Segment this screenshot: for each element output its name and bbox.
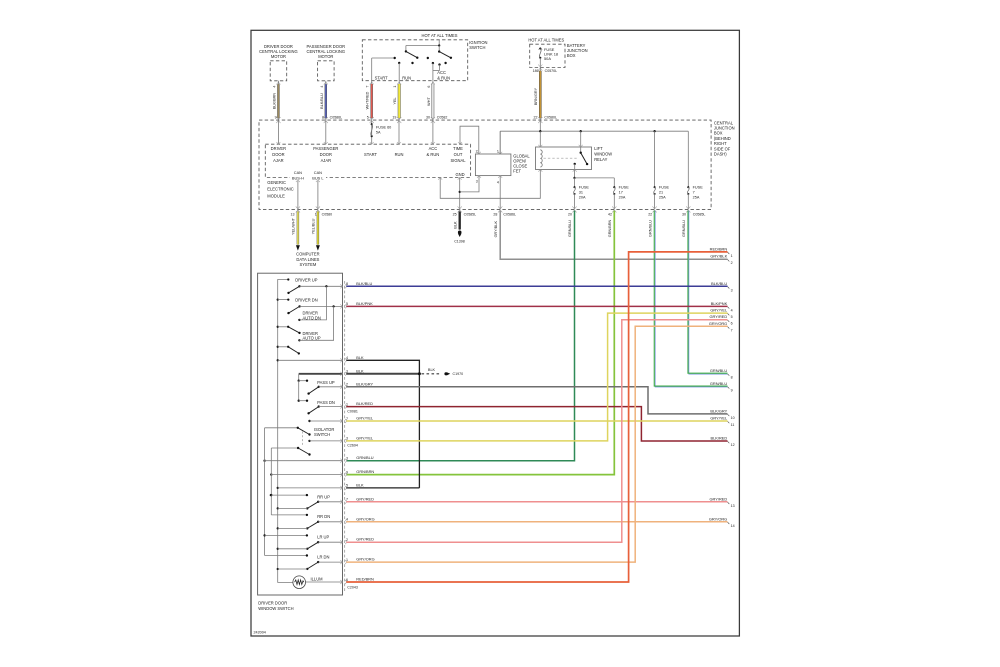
svg-text:PASS UP: PASS UP [317, 380, 335, 385]
svg-text:BOX: BOX [567, 53, 576, 58]
svg-text:4: 4 [346, 518, 348, 522]
fuse 21 25A F21 [654, 131, 656, 187]
GND wire from GEM to FET pin3 and C1398 [458, 178, 462, 180]
svg-text:242004: 242004 [254, 631, 266, 635]
svg-text:MOTOR: MOTOR [271, 54, 286, 59]
svg-text:YEL/BLU: YEL/BLU [312, 218, 316, 234]
svg-text:7: 7 [693, 191, 695, 195]
wire GRN/BLU fuse7 to terminal 8 [689, 211, 728, 374]
svg-text:BLK: BLK [356, 355, 364, 360]
svg-text:GRN/BLU: GRN/BLU [356, 455, 373, 460]
isolator mechanical link [301, 432, 303, 447]
svg-text:3: 3 [731, 288, 733, 292]
svg-text:25A: 25A [659, 196, 666, 200]
svg-text:C2694: C2694 [347, 444, 358, 448]
svg-text:RUN: RUN [402, 75, 411, 80]
wire GRN/BLU fuse21 to terminal 9 [655, 211, 727, 387]
svg-text:LIFT: LIFT [594, 146, 603, 151]
wire GRY/YEL C2694 to terminal 5 [346, 313, 727, 441]
wire TIME OUT SIGNAL to FET pin 2 [460, 126, 479, 154]
svg-text:C0580L: C0580L [544, 115, 557, 119]
svg-text:21: 21 [659, 191, 663, 195]
power bus from BRN/GRY feed [539, 120, 541, 131]
svg-text:MOTOR: MOTOR [318, 54, 333, 59]
ignition RUN contact wire [398, 63, 400, 81]
svg-text:DRIVER: DRIVER [271, 146, 287, 151]
svg-text:MODULE: MODULE [267, 193, 285, 198]
svg-text:GRY/YEL: GRY/YEL [710, 416, 728, 421]
svg-text:PASSENGER: PASSENGER [313, 146, 338, 151]
switch pin 4 BLK row [278, 359, 343, 361]
svg-text:BLK: BLK [453, 221, 457, 229]
svg-text:25A: 25A [693, 196, 700, 200]
svg-text:DOOR: DOOR [272, 152, 284, 157]
ISOLATOR SWITCH pole 1 [265, 427, 298, 429]
DRIVER DN switch [278, 299, 289, 301]
svg-text:START: START [364, 152, 378, 157]
svg-text:4: 4 [346, 356, 348, 360]
svg-text:4: 4 [320, 86, 324, 88]
svg-text:4: 4 [273, 86, 277, 88]
driver auto-up blade [278, 346, 289, 348]
wire RED/BRN ILLUM to terminal 1 [346, 252, 727, 582]
svg-text:31: 31 [579, 191, 583, 195]
svg-text:YEL: YEL [393, 97, 397, 104]
wire BLK pin4 row [346, 360, 419, 488]
svg-text:GRY/BLK: GRY/BLK [494, 221, 498, 238]
GEM pin wires from top connectors [277, 120, 279, 144]
svg-text:C0586L: C0586L [330, 115, 343, 119]
svg-text:19: 19 [392, 115, 396, 119]
svg-text:2: 2 [346, 383, 348, 387]
svg-text:DASH): DASH) [714, 152, 727, 157]
switch pin 3 GRY/YEL row C2694 [308, 440, 310, 442]
svg-text:GRY/ORG: GRY/ORG [356, 557, 374, 562]
svg-text:PASS DN: PASS DN [317, 400, 335, 405]
driver door window switch box S1 [258, 273, 343, 595]
svg-text:8: 8 [731, 376, 733, 380]
wire BLK/GRY to terminal 10 [346, 387, 727, 414]
wire WHT ignition ACC&RUN [431, 82, 435, 84]
ignition switch internals [438, 40, 440, 46]
svg-text:4: 4 [497, 180, 499, 184]
wire GRY/YEL pin7 row to terminal 11 [346, 420, 727, 422]
svg-text:11: 11 [731, 423, 735, 427]
svg-text:START: START [375, 75, 389, 80]
fuse 7 25A F7 [687, 131, 689, 187]
svg-text:RED/BRN: RED/BRN [710, 246, 728, 251]
svg-text:FUSE: FUSE [693, 186, 704, 190]
svg-text:BLK: BLK [356, 368, 364, 373]
ILLUM lamp [293, 576, 306, 589]
PASS DN switch [298, 381, 300, 401]
ground wire BLK to C1398 [459, 211, 461, 230]
RR DN switch [271, 514, 307, 516]
svg-text:RELAY: RELAY [594, 157, 607, 162]
svg-text:FUSE: FUSE [619, 186, 630, 190]
svg-text:13: 13 [291, 212, 295, 216]
svg-text:C0585L: C0585L [693, 212, 706, 216]
svg-text:DRIVER DOOR: DRIVER DOOR [258, 600, 287, 605]
svg-text:DRIVER DN: DRIVER DN [295, 297, 318, 302]
relay output bar to fuses [574, 170, 576, 178]
svg-text:HOT AT ALL TIMES: HOT AT ALL TIMES [422, 33, 458, 38]
svg-text:YEL/WHT: YEL/WHT [292, 217, 296, 235]
svg-text:GND: GND [455, 172, 464, 177]
svg-text:GRY/YEL: GRY/YEL [356, 416, 374, 421]
svg-text:7: 7 [346, 417, 348, 421]
svg-text:GRY/ORG: GRY/ORG [709, 321, 727, 326]
svg-text:6: 6 [731, 322, 733, 326]
svg-text:BLK/RED: BLK/RED [356, 401, 373, 406]
svg-text:GRN/BLU: GRN/BLU [710, 368, 727, 373]
svg-text:BUS-H: BUS-H [292, 175, 304, 180]
svg-text:GRN/BLU: GRN/BLU [710, 381, 727, 386]
FET pin 1 to bus [499, 131, 501, 154]
svg-text:SIGNAL: SIGNAL [450, 158, 466, 163]
svg-text:DOOR: DOOR [320, 152, 332, 157]
ignition ACC&RUN contact wire [432, 63, 434, 81]
svg-text:GRN/BRN: GRN/BRN [356, 469, 374, 474]
PASS UP switch [298, 380, 300, 382]
svg-text:4: 4 [731, 308, 733, 312]
relay contact [580, 131, 582, 147]
svg-text:C1970: C1970 [453, 372, 464, 376]
svg-text:ILLUM: ILLUM [311, 577, 324, 582]
svg-text:C1398: C1398 [454, 239, 465, 243]
svg-text:FUSE 60: FUSE 60 [376, 125, 391, 129]
svg-text:GENERIC: GENERIC [267, 180, 286, 185]
wire GRY/ORG LR-DN to terminal 7 [346, 326, 727, 562]
fuse 60 5A on START wire [371, 123, 373, 125]
LR DN switch [265, 555, 307, 557]
svg-text:5A: 5A [376, 130, 381, 134]
wire BLK pin5 row [346, 487, 419, 489]
svg-text:14: 14 [731, 524, 735, 528]
svg-text:FET: FET [513, 168, 521, 173]
svg-text:BRN/GRY: BRN/GRY [534, 87, 538, 105]
fuse 17 20A F17 [613, 186, 615, 188]
svg-text:5: 5 [346, 484, 348, 488]
svg-text:RR DN: RR DN [317, 514, 330, 519]
svg-text:42: 42 [608, 212, 612, 216]
svg-text:WINDOW: WINDOW [594, 151, 612, 156]
svg-text:C0081: C0081 [347, 409, 358, 413]
svg-text:ACC: ACC [429, 146, 438, 151]
svg-text:RUN: RUN [395, 152, 404, 157]
svg-text:GRN/BLU: GRN/BLU [568, 220, 572, 237]
svg-text:1: 1 [346, 558, 348, 562]
svg-text:1: 1 [731, 254, 733, 258]
passenger door central locking motor box [318, 61, 335, 81]
svg-text:1: 1 [315, 212, 317, 216]
svg-text:20A: 20A [579, 196, 586, 200]
svg-text:C0580: C0580 [322, 212, 333, 216]
svg-text:FUSE: FUSE [579, 186, 590, 190]
svg-text:7: 7 [346, 498, 348, 502]
wire BRN/GRY battery feed [539, 68, 541, 121]
fuse link 18 50A [538, 48, 542, 50]
svg-text:BLK/GRY: BLK/GRY [710, 408, 727, 413]
driver door central locking motor box [270, 61, 287, 81]
svg-text:AJAR: AJAR [273, 158, 284, 163]
lift window relay box K1 [536, 147, 592, 170]
svg-text:LR UP: LR UP [317, 535, 329, 540]
svg-text:GRY/ORG: GRY/ORG [709, 516, 727, 521]
relay coil [539, 131, 541, 147]
driver auto-dn blade [278, 326, 289, 328]
ignition START contact wire [371, 58, 373, 81]
svg-text:BLK/BRN: BLK/BRN [273, 93, 277, 110]
svg-text:25: 25 [453, 212, 457, 216]
svg-text:TIME: TIME [453, 146, 463, 151]
svg-text:BLK: BLK [428, 368, 436, 372]
svg-text:GRY/RED: GRY/RED [356, 537, 374, 542]
svg-text:WHT/RED: WHT/RED [366, 91, 370, 109]
svg-text:10: 10 [731, 416, 735, 420]
svg-text:C0586L: C0586L [503, 212, 516, 216]
svg-text:OUT: OUT [454, 152, 463, 157]
switch pin 3 BLK row [299, 373, 343, 375]
svg-text:186: 186 [533, 69, 539, 73]
svg-text:C0585L: C0585L [464, 212, 477, 216]
wire GRN/BRN fuse17 to switch pin9 [346, 211, 614, 475]
svg-text:1: 1 [393, 86, 397, 88]
svg-text:FUSE: FUSE [659, 186, 670, 190]
svg-text:RR UP: RR UP [317, 494, 330, 499]
border frame [251, 30, 739, 636]
switch pin 7 GRY/YEL row [308, 420, 310, 422]
svg-text:BLK/RED: BLK/RED [711, 436, 728, 441]
RR UP switch [270, 494, 272, 496]
svg-text:2: 2 [731, 261, 733, 265]
svg-text:BUS L: BUS L [312, 175, 324, 180]
svg-text:BLK/BLU: BLK/BLU [711, 281, 727, 286]
svg-text:3: 3 [476, 180, 478, 184]
svg-text:2: 2 [476, 150, 478, 154]
central junction box (dashed) [259, 120, 711, 209]
svg-text:GRN/BLU: GRN/BLU [682, 220, 686, 237]
svg-text:SWITCH: SWITCH [314, 432, 330, 437]
wire GRY/BLK from FET pin4 to terminal 2 [500, 211, 727, 260]
relay mechanical link (dashed) [544, 157, 578, 159]
wire GRY/RED pin7 row to terminal 13 [346, 501, 727, 503]
svg-text:2: 2 [346, 538, 348, 542]
switch connector dashed line [344, 281, 346, 591]
wire YEL ignition RUN [397, 82, 401, 84]
left link verticals [264, 428, 266, 556]
svg-text:GRY/ORG: GRY/ORG [356, 516, 374, 521]
svg-text:C0570L: C0570L [545, 69, 558, 73]
wire BLK/BRN from driver lock motor [276, 82, 280, 84]
DRIVER UP switch [287, 278, 289, 280]
svg-text:GRY/YEL: GRY/YEL [710, 308, 728, 313]
svg-text:BLK/BLU: BLK/BLU [320, 93, 324, 109]
svg-text:50A: 50A [544, 56, 551, 61]
svg-text:C2043: C2043 [347, 585, 358, 589]
switch pin 3 GRN/BLU row [263, 460, 265, 462]
svg-text:SWITCH: SWITCH [469, 45, 485, 50]
switch pin 5 BLK row [278, 487, 343, 489]
svg-text:30: 30 [682, 212, 686, 216]
svg-text:5: 5 [346, 302, 348, 306]
svg-text:RED/BRN: RED/BRN [356, 577, 374, 582]
svg-text:5: 5 [731, 315, 733, 319]
svg-text:WINDOW SWITCH: WINDOW SWITCH [258, 606, 293, 611]
svg-text:& RUN: & RUN [427, 152, 440, 157]
svg-text:ELECTRONIC: ELECTRONIC [267, 187, 293, 192]
svg-text:22: 22 [534, 115, 538, 119]
svg-text:1: 1 [346, 402, 348, 406]
svg-text:12: 12 [731, 443, 735, 447]
LR UP switch [265, 534, 307, 536]
svg-text:GRY/BLK: GRY/BLK [710, 254, 727, 259]
svg-text:BLK: BLK [356, 482, 364, 487]
svg-text:BLK/BLU: BLK/BLU [356, 281, 372, 286]
CAN bus wires to computer data lines [296, 180, 300, 182]
svg-text:22: 22 [648, 212, 652, 216]
svg-text:20: 20 [568, 212, 572, 216]
switch pin 9 GRN/BRN row [270, 473, 272, 475]
svg-text:BLK/PNK: BLK/PNK [711, 301, 728, 306]
fuse 31 20A F31 [573, 186, 575, 188]
svg-text:BLK/GRY: BLK/GRY [356, 381, 373, 386]
switch pin arrows and numbers [340, 284, 342, 288]
svg-text:AUTO UP: AUTO UP [303, 336, 321, 341]
svg-text:GRY/YEL: GRY/YEL [356, 435, 374, 440]
wire BLK/RED to terminal 12 [346, 407, 727, 441]
ISOLATOR SWITCH pole 2 [271, 447, 298, 449]
svg-text:C0582: C0582 [437, 115, 448, 119]
wire GRY/ORG pin4 row to terminal 14 [346, 521, 727, 523]
svg-text:DRIVER UP: DRIVER UP [295, 277, 318, 282]
svg-text:GRY/RED: GRY/RED [710, 314, 728, 319]
svg-text:17: 17 [619, 191, 623, 195]
svg-text:GRY/RED: GRY/RED [356, 496, 374, 501]
svg-text:AJAR: AJAR [321, 158, 332, 163]
wire BLK/PNK row to terminal 4 [346, 305, 727, 307]
svg-text:13: 13 [731, 504, 735, 508]
relay coil return wire to GEM [440, 170, 540, 199]
svg-text:GRN/BLU: GRN/BLU [648, 220, 652, 237]
wire GRN/BLU fuse31 to switch pin3 [346, 211, 574, 461]
svg-text:30: 30 [426, 115, 430, 119]
wire GRY/RED LR-UP to terminal 6 [346, 320, 727, 543]
svg-text:3: 3 [346, 457, 348, 461]
svg-text:6: 6 [427, 86, 431, 88]
svg-text:SYSTEM: SYSTEM [299, 262, 316, 267]
svg-text:9: 9 [346, 470, 348, 474]
wire WHT/RED ignition START [370, 82, 374, 84]
switch internal bus [278, 280, 293, 583]
svg-text:28: 28 [493, 212, 497, 216]
svg-text:3: 3 [346, 437, 348, 441]
svg-text:9: 9 [731, 388, 733, 392]
FET pin 4 wire / GRY/BLK out [499, 176, 501, 210]
svg-text:5: 5 [367, 115, 369, 119]
svg-text:7: 7 [731, 328, 733, 332]
svg-text:20A: 20A [619, 196, 626, 200]
wire BLK/BLU row to terminal 3 [346, 285, 727, 287]
global open/close FET box U1 [475, 154, 511, 176]
svg-text:1: 1 [497, 150, 499, 154]
svg-text:GRY/RED: GRY/RED [710, 496, 728, 501]
svg-text:7: 7 [366, 86, 370, 88]
wire BLK pin3 row with C1970 splice [346, 373, 419, 375]
svg-text:HOT AT ALL TIMES: HOT AT ALL TIMES [528, 38, 564, 43]
svg-text:8: 8 [346, 282, 348, 286]
svg-text:LR DN: LR DN [317, 555, 329, 560]
svg-text:& RUN: & RUN [437, 75, 450, 80]
svg-text:WHT: WHT [427, 97, 431, 106]
wire BLK/BLU from passenger lock motor [324, 82, 328, 84]
generic electronic module box (dashed) [265, 144, 470, 177]
svg-text:GRN/BRN: GRN/BRN [608, 219, 612, 237]
svg-text:BLK/PNK: BLK/PNK [356, 301, 373, 306]
